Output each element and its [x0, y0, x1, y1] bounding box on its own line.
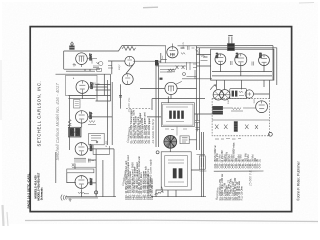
small component near row left: [201, 55, 208, 61]
capacitor C2: [94, 83, 100, 86]
dashed chassis box (power/switch section): [212, 99, 269, 136]
tiny labels below dashed box: [215, 138, 241, 140]
filter network box FL1 (double border): [161, 103, 194, 127]
svg-text:©John F. Rider, Publisher: ©John F. Rider, Publisher: [296, 160, 300, 200]
svg-text:C42- .01: C42- .01: [259, 159, 262, 169]
wire: T6 line: [108, 61, 125, 74]
capacitor C15 on left verticals: [195, 114, 200, 131]
svg-text:C9- .01 Mfd 600V paper: C9- .01 Mfd 600V paper: [148, 118, 151, 144]
parts list right lower (resistors): [215, 174, 243, 201]
wire: V8 to bus and box: [166, 44, 173, 63]
wire: inside dashed box: [212, 108, 269, 120]
wire: ladder rungs left-middle: [68, 85, 110, 101]
IF can box around V2: [66, 75, 98, 95]
wire: bus y74: [56, 73, 111, 75]
terminal circle on bottom bus: [95, 191, 98, 194]
gang capacitor (two circles): [213, 90, 230, 100]
tuning arrow: [210, 85, 216, 90]
output transformer T-OUT (top-left can): [69, 42, 74, 50]
loop antenna: [61, 195, 98, 201]
tubes row top right: V10: [215, 54, 226, 65]
power transformer PT1: [161, 152, 191, 190]
wire: misc connectors center: [133, 61, 212, 152]
wire: bus y98.6 middle: [152, 98, 205, 100]
wire: V5 connections: [67, 160, 96, 197]
coil pair below V4: [72, 158, 96, 167]
wire: left vertical from bus: [63, 51, 65, 69]
wire: horizontal y98.7: [68, 98, 95, 100]
wire: top B+ bus right section: [178, 45, 274, 47]
svg-text:Setchell Carlson Model No. 416: Setchell Carlson Model No. 416 - 4017: [55, 83, 60, 161]
wire: verticals x107.5 x112: [108, 80, 113, 145]
ground symbol: [69, 198, 72, 202]
svg-text:12SA7: 12SA7: [90, 177, 93, 185]
wire: V4 connections: [56, 149, 114, 197]
wire: V2 connections: [73, 78, 107, 99]
electrolytic can (dark, top): [228, 36, 235, 51]
svg-text:15-666 V.E.: 15-666 V.E.: [249, 169, 253, 186]
oscillator coil box above V5: [67, 169, 94, 173]
candohm resistor (dark bars): [213, 106, 223, 114]
wire: lower-left horizontal: [64, 69, 100, 71]
border frame: [30, 27, 291, 212]
svg-text:SETCHELL CARLSON, INC.: SETCHELL CARLSON, INC.: [36, 81, 41, 147]
svg-text:35Z5: 35Z5: [261, 52, 263, 58]
svg-text:50L6: 50L6: [237, 52, 239, 58]
tube V3: [76, 111, 88, 123]
wire: filter box to speaker: [165, 127, 187, 136]
svg-text:Schematic: Schematic: [39, 187, 43, 201]
wire: lines under V8: [161, 53, 167, 63]
svg-text:Ant. Models 761-767 lp: Ant. Models 761-767 lp: [152, 118, 155, 144]
tube V2: [76, 81, 89, 94]
svg-text:12SK7: 12SK7: [91, 143, 93, 151]
resistor R5 (diagonal): [155, 187, 163, 195]
svg-text:50L6: 50L6: [217, 52, 219, 58]
capacitor C4 group right of V8: [181, 46, 199, 55]
wire: V3 connections: [70, 96, 113, 151]
resistor R6: [231, 108, 243, 112]
wire: bottom bus: [66, 196, 206, 198]
wire: stubs below tube row box: [217, 80, 270, 99]
tube V4: [75, 143, 88, 156]
wire: second bus: [196, 48, 277, 85]
terminal circle on dashed box: [269, 132, 273, 136]
tube V11: [235, 54, 247, 66]
svg-text:PAGE 16-2 SETC.-CARL.: PAGE 16-2 SETC.-CARL.: [27, 172, 31, 208]
wire: right bus vertical: [272, 46, 274, 80]
wire: diagonal between V6 V7: [126, 65, 133, 74]
svg-text:C4 25: C4 25: [183, 41, 185, 48]
wire: long verticals x196-206: [197, 46, 204, 197]
wire: verticals down from y74: [104, 74, 110, 101]
svg-text:35Z5: 35Z5: [254, 98, 256, 104]
parts list left lower (condensers cont.): [121, 155, 154, 200]
parts list right upper: [214, 142, 262, 168]
component box right of speaker: [180, 136, 189, 144]
wire: internal buses of tube row: [212, 65, 272, 76]
tube V8 (osc): [167, 47, 178, 58]
resistor R12 below V5: [78, 192, 89, 194]
svg-text:12SQ7: 12SQ7: [91, 111, 93, 119]
wire: dashed line to antenna: [126, 108, 152, 110]
separator line in parts list: [214, 170, 264, 172]
speaker SP1 (crosshatched dark): [164, 135, 177, 148]
terminal circle on x157 vertical: [156, 151, 159, 154]
left margin labels near power area: [147, 159, 153, 197]
svg-text:12SK7: 12SK7: [92, 81, 94, 89]
IF transformer IFT1 (dark hatched, left): [69, 127, 82, 137]
svg-text:IF 455: IF 455: [106, 140, 108, 147]
resistor R1 in bus: [122, 46, 136, 50]
oscillator section wiring (upper middle): [155, 60, 212, 80]
tiny schematic labels scattered: [106, 41, 256, 147]
capacitor C5 C6 between tubes: [231, 61, 254, 66]
resistor R2 cluster right of V1: [87, 59, 103, 72]
tube V12: [259, 55, 270, 66]
tube V13 rectifier: [256, 101, 268, 113]
chassis box around output tubes: [211, 49, 274, 80]
junction box lower right: [197, 155, 207, 171]
capacitor C1 near V1: [73, 63, 76, 67]
resistor R3: [88, 121, 96, 125]
dial box with pilot lamp: [230, 89, 254, 99]
wire: bend below component box: [93, 141, 109, 154]
svg-text:R11- 25 Ohm: R11- 25 Ohm: [240, 186, 243, 200]
wire: around PT1: [156, 170, 200, 197]
resistor R13 on left vertical: [68, 119, 72, 126]
wire: V7 output down: [119, 84, 122, 108]
tube V6 (mini, upper): [125, 56, 135, 66]
switch contacts row: [215, 125, 258, 130]
wire: stubs left of V6: [108, 66, 113, 69]
wire: connectors left of tube row: [197, 55, 211, 67]
tube V1: [76, 53, 88, 67]
svg-text:6SQ7: 6SQ7: [119, 64, 121, 70]
tube V5: [75, 176, 88, 189]
tube V7 (mini, lower): [122, 74, 133, 85]
component box (left-mid): [89, 133, 105, 145]
vertical hatched resistor in dashed box: [234, 122, 237, 132]
coil box upper-left of V3: [74, 100, 81, 109]
wire: verticals x156 x158.6: [156, 60, 159, 147]
svg-text:105-125 Volts AC-DC line: 105-125 Volts AC-DC line: [147, 168, 150, 196]
wire: top B+ bus left section: [64, 46, 166, 51]
parts list left upper (condensers): [126, 109, 155, 144]
tube V9 (2nd detector): [165, 81, 182, 94]
